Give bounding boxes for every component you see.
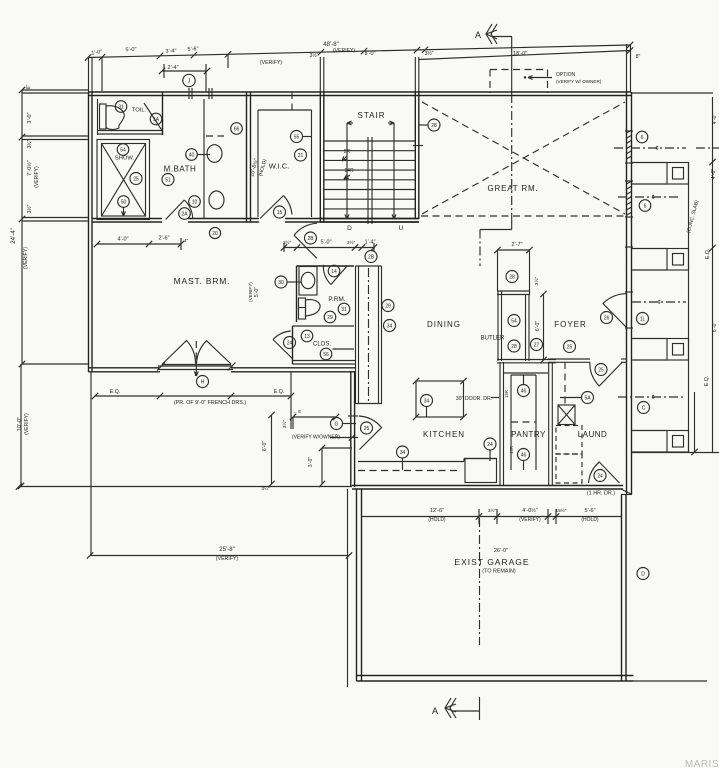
circle tag 5A toilet door <box>150 113 162 125</box>
svg-text:(VERIFY W/OWNER): (VERIFY W/OWNER) <box>292 435 340 441</box>
svg-text:2R: 2R <box>344 149 351 155</box>
dimension chain left <box>21 90 23 364</box>
wall toilet room <box>97 99 99 135</box>
svg-text:14: 14 <box>331 269 337 275</box>
svg-text:24’-4": 24’-4" <box>11 228 17 243</box>
svg-text:28: 28 <box>431 123 437 129</box>
door kitchen 25 <box>359 416 382 450</box>
stair treads <box>324 140 415 142</box>
svg-text:2’-6": 2’-6" <box>158 236 169 242</box>
wall pantry west <box>499 362 501 486</box>
wall kitchen west <box>350 371 352 487</box>
vanity mbath <box>203 99 205 219</box>
dimension stair width <box>347 122 353 124</box>
circle tag 25 laund door <box>595 364 607 376</box>
laundry dashed appliances <box>556 426 582 455</box>
svg-text:TOIL.: TOIL. <box>132 108 147 114</box>
dimension 6-0 vertical <box>271 415 273 484</box>
circle tag 34 chase <box>384 320 396 332</box>
svg-text:(1 HR. DR.): (1 HR. DR.) <box>587 491 615 497</box>
svg-text:¢: ¢ <box>655 146 658 152</box>
porch bottom line <box>632 452 690 454</box>
laundry box X <box>558 405 575 425</box>
svg-text:15R: 15R <box>509 446 514 454</box>
svg-text:(TO REMAIN): (TO REMAIN) <box>482 569 516 575</box>
svg-text:M.BATH: M.BATH <box>164 165 197 174</box>
door laundry bottom 24 <box>589 462 620 483</box>
svg-text:PANTRY: PANTRY <box>511 430 546 439</box>
svg-text:10: 10 <box>192 199 198 205</box>
svg-text:40: 40 <box>189 152 195 158</box>
wall prm top <box>297 265 355 267</box>
circle tag 1L <box>637 313 649 325</box>
svg-text:4’-0": 4’-0" <box>117 237 128 243</box>
svg-text:3½": 3½" <box>26 204 33 213</box>
garage center dashline <box>479 518 481 645</box>
svg-text:(VERIFY): (VERIFY) <box>519 517 541 523</box>
svg-text:34: 34 <box>387 323 393 329</box>
svg-text:13: 13 <box>304 334 310 340</box>
circle tag 2B closet dim <box>365 251 377 263</box>
dim extension verticals top <box>101 57 103 91</box>
circle tag 27 butler right <box>531 339 543 351</box>
svg-text:2’-7": 2’-7" <box>511 242 522 248</box>
svg-text:SHOW.: SHOW. <box>115 156 135 162</box>
svg-text:6’-0": 6’-0" <box>262 441 268 452</box>
wall garage right <box>621 495 623 682</box>
dimension garage left outside <box>347 489 349 687</box>
wall clos west <box>292 326 294 364</box>
svg-text:31: 31 <box>341 307 347 313</box>
svg-text:STAIR: STAIR <box>358 111 386 120</box>
svg-text:25: 25 <box>133 176 139 182</box>
svg-text:15R: 15R <box>504 390 509 398</box>
sink mbath 1 <box>207 145 222 163</box>
svg-text:(VERIFY): (VERIFY) <box>24 413 30 435</box>
svg-text:G: G <box>335 421 339 427</box>
wall pantry east <box>548 362 550 486</box>
svg-text:29: 29 <box>327 315 333 321</box>
dimension 2-4 toilet <box>162 70 207 72</box>
dimension master top <box>97 243 181 245</box>
svg-text:(VERIFY): (VERIFY) <box>248 282 253 302</box>
svg-text:6: 6 <box>641 135 644 141</box>
dimension french doors <box>95 395 291 397</box>
door prm 14 <box>331 266 348 285</box>
dimension butler 2-7 <box>498 249 530 251</box>
dimension 48-8 overall line <box>88 45 630 58</box>
svg-text:31: 31 <box>118 104 124 110</box>
circle tag H <box>197 376 209 388</box>
wall exterior top <box>89 91 631 93</box>
svg-text:10’-0": 10’-0" <box>17 417 23 431</box>
svg-text:29: 29 <box>385 303 391 309</box>
window hatch right wall 1 <box>627 130 632 133</box>
circle tag 21 wic <box>295 149 307 161</box>
svg-text:(VERIFY): (VERIFY) <box>34 166 40 188</box>
svg-text:51: 51 <box>165 177 171 183</box>
svg-text:25: 25 <box>567 344 573 350</box>
svg-text:6: 6 <box>644 203 647 209</box>
svg-text:5’-0": 5’-0" <box>320 240 331 246</box>
svg-text:E.Q.: E.Q. <box>274 389 284 395</box>
circle tag 56 clos <box>320 348 332 360</box>
svg-text:E.Q.: E.Q. <box>704 376 710 386</box>
dimension garage inner <box>362 516 621 518</box>
svg-text:3’-4": 3’-4" <box>165 48 176 54</box>
circle tag 46 pantry low <box>518 449 530 461</box>
section line A vertical <box>511 60 513 94</box>
dimension 25-8 bottom left <box>90 372 92 556</box>
circle tag 31 toilet <box>115 101 127 113</box>
sink prm <box>301 272 315 288</box>
window marks front wall <box>625 291 633 293</box>
svg-text:12’-6": 12’-6" <box>430 508 444 514</box>
svg-text:34: 34 <box>400 450 406 456</box>
svg-text:24: 24 <box>597 473 603 479</box>
circle tag 28 butler top <box>506 271 518 283</box>
svg-text:8’-0": 8’-0" <box>364 51 375 57</box>
pantry shelf line top <box>504 372 548 374</box>
circle tag 15 wic door <box>274 206 286 218</box>
door wic 15 <box>260 196 284 219</box>
svg-text:5A: 5A <box>153 117 160 123</box>
circle tag 2B hall <box>305 232 317 244</box>
svg-text:4’-0": 4’-0" <box>712 114 718 125</box>
svg-text:←6: ←6 <box>293 409 301 415</box>
wall house bottom <box>352 485 623 487</box>
closet shelves wic <box>258 109 312 111</box>
great room dashed bottom <box>421 215 626 217</box>
circle tag 54 butler <box>508 315 520 327</box>
svg-text:4’-0½": 4’-0½" <box>522 507 538 514</box>
toilet fixture <box>100 104 107 129</box>
svg-text:P.RM.: P.RM. <box>328 296 345 303</box>
svg-text:66: 66 <box>234 126 240 132</box>
svg-text:¢: ¢ <box>651 195 654 201</box>
circle tag 6 window2 <box>639 200 651 212</box>
svg-text:28: 28 <box>509 274 515 280</box>
window band verticals right <box>688 162 690 453</box>
svg-text:2B: 2B <box>307 236 314 242</box>
circle tag D garage <box>637 568 649 580</box>
svg-text:(VERIFY W/ OWNER): (VERIFY W/ OWNER) <box>556 79 602 84</box>
svg-text:2A: 2A <box>181 211 188 217</box>
svg-text:6’-0": 6’-0" <box>535 321 541 332</box>
circle tag 34 kitchen cab <box>421 395 433 407</box>
wall master bottom <box>89 367 161 369</box>
svg-text:5’-6": 5’-6" <box>187 46 198 52</box>
svg-text:4": 4" <box>184 238 189 244</box>
svg-text:25: 25 <box>364 426 370 432</box>
svg-text:7’-0½": 7’-0½" <box>26 160 33 176</box>
window top wall <box>188 88 190 99</box>
svg-text:MAST. BRM.: MAST. BRM. <box>174 276 231 286</box>
stair rail center <box>367 137 369 224</box>
circle tag 29 prm <box>324 311 336 323</box>
wall mbath-wic divider <box>246 92 248 222</box>
french door sill <box>158 365 233 367</box>
closet rod line <box>333 348 355 350</box>
wall exterior right <box>626 92 628 494</box>
wall mbath south <box>92 218 162 220</box>
circle tag 31 prm <box>338 303 350 315</box>
svg-text:(VERIFY): (VERIFY) <box>216 556 238 562</box>
svg-text:3½": 3½" <box>261 485 270 492</box>
svg-text:5’-0": 5’-0" <box>254 287 260 297</box>
svg-text:(VERIFY): (VERIFY) <box>260 60 282 66</box>
long line at garage level <box>19 486 352 488</box>
svg-text:3½": 3½" <box>347 239 356 246</box>
svg-text:3½": 3½" <box>281 420 288 429</box>
circle tag 26 front door <box>601 312 613 324</box>
wall clos bottom <box>293 360 357 362</box>
circle tag 29 chase <box>382 300 394 312</box>
circle tag 24 laund door2 <box>594 470 606 482</box>
circle tag 10 <box>189 196 201 208</box>
svg-text:28: 28 <box>511 344 517 350</box>
svg-text:3½": 3½" <box>488 507 497 514</box>
door foyer front 26 <box>603 294 627 328</box>
svg-text:20: 20 <box>212 231 218 237</box>
dimension bottom right short <box>689 452 719 454</box>
wall laundry-foyer <box>548 358 590 360</box>
door clos 24 <box>273 340 292 359</box>
svg-text:50: 50 <box>121 199 127 205</box>
circle tag 34 kitchen counter <box>397 446 409 458</box>
svg-text:18’-0": 18’-0" <box>513 51 527 57</box>
svg-text:30" DOOR. DR.: 30" DOOR. DR. <box>456 396 492 402</box>
svg-text:A: A <box>432 706 438 716</box>
circle tag 2A <box>179 208 191 220</box>
circle tag 5A laund <box>582 392 594 404</box>
svg-text:54: 54 <box>120 147 126 153</box>
svg-text:3½": 3½" <box>309 52 318 59</box>
svg-text:BUTLER: BUTLER <box>481 336 505 342</box>
svg-text:(VERIFY): (VERIFY) <box>23 247 29 269</box>
wall wic-stair <box>319 92 321 222</box>
circle tag 24 kitchen <box>484 438 496 450</box>
svg-text:OPTION: OPTION <box>556 72 576 78</box>
svg-text:GREAT RM.: GREAT RM. <box>488 184 539 193</box>
svg-text:FOYER: FOYER <box>554 320 587 329</box>
svg-text:H: H <box>201 379 205 385</box>
svg-text:EXIST GARAGE: EXIST GARAGE <box>454 557 529 567</box>
pantry shelves <box>510 375 512 470</box>
sink mbath 2 <box>209 191 224 209</box>
svg-text:D: D <box>641 571 645 577</box>
svg-text:CLOS.: CLOS. <box>313 342 331 348</box>
dimension left lower 10-0 <box>20 364 22 486</box>
svg-text:(VERIFY): (VERIFY) <box>333 48 355 54</box>
stair bottom wall <box>320 218 419 220</box>
svg-text:¢: ¢ <box>657 300 660 306</box>
circle tag 50 shower <box>118 196 130 208</box>
svg-text:26’-0": 26’-0" <box>494 548 508 554</box>
wall garage bottom <box>357 675 634 677</box>
circle tag 66 mbath east <box>231 123 243 135</box>
circle tag 40 <box>186 149 198 161</box>
svg-text:A: A <box>475 30 481 40</box>
kitchen counter <box>358 461 464 463</box>
circle tag 25 shower <box>130 173 142 185</box>
circle tag 14 prm door <box>328 265 340 277</box>
svg-text:5’-0": 5’-0" <box>125 47 136 53</box>
circle tag J <box>183 74 195 86</box>
dimension 18-0 sub line <box>419 51 630 60</box>
circle tag 24 clos door <box>284 337 296 349</box>
dimension 6-0 exterior <box>293 416 336 418</box>
vanity prm <box>299 267 317 296</box>
svg-text:25: 25 <box>598 367 604 373</box>
great room dashed X <box>422 102 625 214</box>
svg-text:6": 6" <box>26 84 32 89</box>
svg-text:MARIS: MARIS <box>685 759 719 768</box>
circle tag 46 pantry top <box>518 385 530 397</box>
wall garage left <box>356 489 358 681</box>
svg-text:E.Q.: E.Q. <box>705 249 711 259</box>
line roof right <box>632 92 714 94</box>
svg-text:4’-0": 4’-0" <box>711 169 717 180</box>
svg-text:56: 56 <box>323 352 329 358</box>
svg-text:25’-8": 25’-8" <box>219 547 234 553</box>
optional wall dashed <box>490 69 548 71</box>
circle tag 55 wic <box>291 131 303 143</box>
svg-text:KITCHEN: KITCHEN <box>423 430 465 439</box>
svg-text:(HOLD): (HOLD) <box>581 517 599 523</box>
french doors master <box>162 364 231 366</box>
dimension right outer <box>712 97 714 452</box>
door laundry top 25 <box>590 362 623 386</box>
circle tag C right <box>638 402 650 414</box>
wall prm west <box>296 266 298 322</box>
dimension hall row <box>284 247 374 249</box>
dimension 3-0 vertical <box>321 448 323 484</box>
circle tag 6 window1 <box>636 131 648 143</box>
centerline marks right <box>614 147 686 149</box>
circle tag G <box>331 418 343 430</box>
svg-text:24: 24 <box>287 340 293 346</box>
svg-text:3’-0": 3’-0" <box>27 112 33 123</box>
door mbath 2A <box>166 200 185 220</box>
svg-text:26: 26 <box>604 315 610 321</box>
window hatch right wall 2 <box>627 181 632 184</box>
circle tag 28 butler low <box>508 340 520 352</box>
wall chase <box>355 266 357 404</box>
svg-text:14R: 14R <box>344 168 354 174</box>
svg-text:U: U <box>399 225 404 232</box>
svg-text:C: C <box>642 405 646 411</box>
door toilet 5A <box>144 103 163 132</box>
kitchen island <box>465 459 497 483</box>
svg-text:(PR. OF 9’-0" FRENCH DRS.): (PR. OF 9’-0" FRENCH DRS.) <box>174 400 246 406</box>
svg-text:15½": 15½" <box>555 507 566 514</box>
svg-text:2B: 2B <box>368 254 375 260</box>
svg-text:¢: ¢ <box>651 395 654 401</box>
svg-text:3½": 3½" <box>26 139 33 148</box>
svg-text:(HOLD): (HOLD) <box>428 517 446 523</box>
dimension kitchen door <box>330 437 352 439</box>
svg-text:46: 46 <box>521 388 527 394</box>
svg-text:3½": 3½" <box>424 50 433 57</box>
svg-text:30: 30 <box>278 280 284 286</box>
wall exterior left <box>88 92 90 372</box>
wall pantry top <box>497 359 556 361</box>
circle tag 54 shower <box>117 144 129 156</box>
circle tag 25 kitchen door <box>361 422 373 434</box>
svg-text:D: D <box>347 225 352 232</box>
circle tag 20 master <box>209 227 220 238</box>
svg-text:W.I.C.: W.I.C. <box>269 162 289 171</box>
circle tag 28 greatroom <box>428 119 440 131</box>
svg-text:6’-0": 6’-0" <box>712 322 718 333</box>
svg-text:24: 24 <box>487 442 493 448</box>
wall greatroom west <box>414 92 416 219</box>
svg-text:3½": 3½" <box>533 277 540 286</box>
circle tag 30 prm <box>275 276 287 288</box>
wall clos top <box>293 325 355 327</box>
kitchen cabinet box <box>416 381 464 417</box>
svg-text:54: 54 <box>511 318 517 324</box>
svg-text:34: 34 <box>424 398 430 404</box>
stair direction lines <box>346 123 348 214</box>
svg-text:1L: 1L <box>640 316 646 322</box>
svg-text:46: 46 <box>521 452 527 458</box>
circle tag 25 foyer <box>564 341 576 353</box>
shower enclosure <box>97 140 150 220</box>
svg-text:8": 8" <box>636 54 641 60</box>
svg-text:3’-0": 3’-0" <box>308 457 314 468</box>
svg-text:15: 15 <box>277 210 283 216</box>
toilet prm <box>299 298 306 319</box>
window squares right <box>667 163 689 185</box>
svg-text:DINING: DINING <box>427 320 461 329</box>
circle tag 13 clos <box>301 330 313 342</box>
svg-text:27: 27 <box>534 342 540 348</box>
svg-text:5’-6": 5’-6" <box>584 508 595 514</box>
svg-text:E.Q.: E.Q. <box>110 389 120 395</box>
svg-text:3½": 3½" <box>283 239 292 246</box>
door hall 2B <box>294 235 317 258</box>
svg-text:1’-4": 1’-4" <box>364 240 375 246</box>
svg-text:2’-4": 2’-4" <box>167 65 178 71</box>
wall butler <box>497 291 499 361</box>
svg-text:55: 55 <box>294 134 300 140</box>
circle tag 51 <box>162 174 174 186</box>
svg-text:5A: 5A <box>584 395 591 401</box>
svg-text:21: 21 <box>298 153 304 159</box>
